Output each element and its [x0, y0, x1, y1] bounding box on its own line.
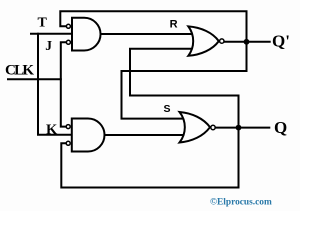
AND gate U1 (J input gate): [72, 18, 101, 51]
inverting bubble U2 input 1: [66, 125, 70, 129]
svg-text:R: R: [170, 18, 178, 30]
wire T input line: [31, 33, 75, 35]
svg-text:Q': Q': [272, 31, 290, 50]
wire Q' output: [225, 41, 270, 43]
wire CLK input line: [8, 78, 61, 80]
junction node Q: [236, 125, 242, 131]
inverting bubble U1 input 1: [66, 24, 70, 28]
wire U2 output to NOR gate U4 (S signal): [105, 134, 190, 136]
wire U1 output to NOR gate U3 (R signal): [101, 33, 195, 35]
NOR gate U4 (S latch gate): [180, 112, 211, 143]
wire J/CLK vertical joining U1 input 3 and U2 input 1: [61, 42, 66, 126]
svg-text:©Elprocus.com: ©Elprocus.com: [210, 196, 272, 207]
inverting bubble U4 output: [211, 125, 215, 129]
NOR gate U3 (R latch gate): [188, 26, 219, 55]
AND gate U2 (K input gate): [72, 119, 105, 152]
inverting bubble U1 input 3: [66, 40, 70, 44]
svg-text:S: S: [164, 103, 171, 115]
wire T vertical to AND gate U2 middle input: [38, 34, 78, 135]
wire Q' feedback top border to AND gate U1 input 1: [60, 11, 246, 38]
wire Q output: [216, 127, 270, 129]
inverting bubble U2 input 3: [66, 141, 70, 145]
svg-text:J: J: [45, 38, 52, 53]
wire Q' feedback to NOR gate U4 upper input: [122, 45, 247, 119]
svg-text:CLK: CLK: [5, 63, 34, 79]
wire Q feedback bottom to U2 input 3: [61, 131, 238, 188]
inverting bubble U3 output: [220, 39, 224, 43]
svg-text:Q: Q: [274, 118, 287, 137]
svg-text:K: K: [46, 122, 58, 138]
wire Q feedback to NOR gate U3 lower input: [130, 49, 239, 124]
junction node Q': [244, 39, 250, 45]
svg-text:T: T: [38, 16, 48, 31]
